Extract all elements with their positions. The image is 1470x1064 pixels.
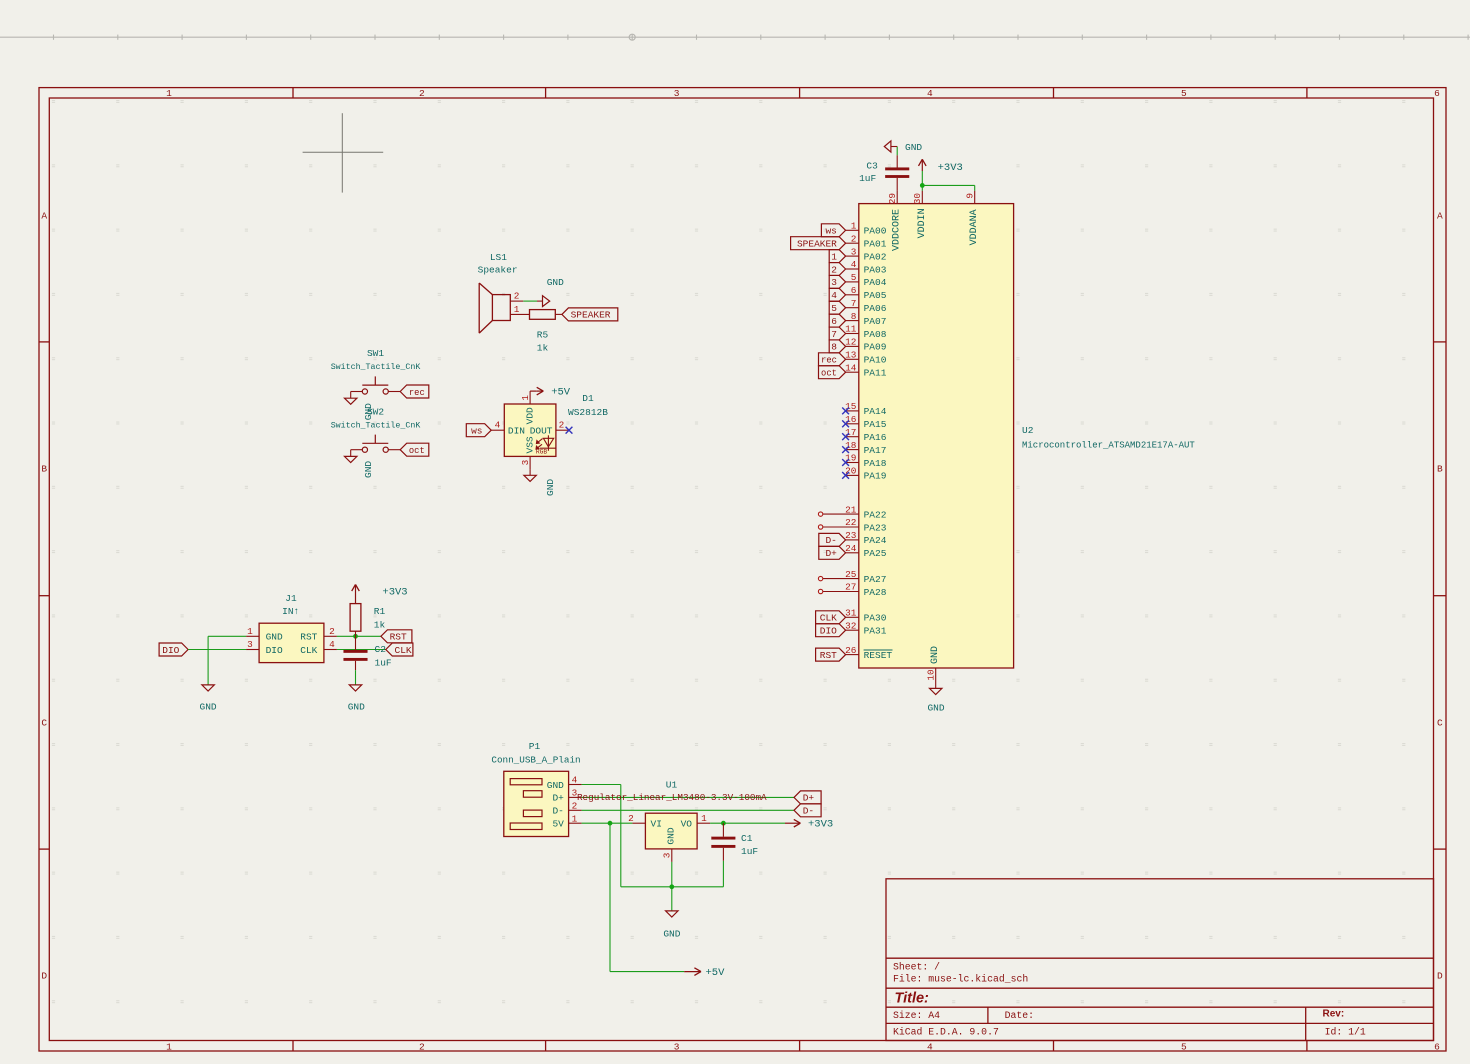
svg-text:PA14: PA14 bbox=[864, 406, 887, 417]
svg-text:Sheet: /: Sheet: / bbox=[893, 961, 940, 972]
wire +3V3 to VDDIN and VDDANA bbox=[922, 171, 974, 191]
svg-text:PA24: PA24 bbox=[864, 535, 887, 546]
svg-text:VO: VO bbox=[681, 819, 693, 830]
svg-text:PA31: PA31 bbox=[864, 626, 887, 637]
wire J1 pin1 to GND bbox=[208, 636, 246, 685]
svg-text:1uF: 1uF bbox=[859, 173, 876, 184]
svg-text:4: 4 bbox=[495, 420, 501, 431]
svg-text:+3V3: +3V3 bbox=[382, 587, 407, 599]
svg-text:D-: D- bbox=[803, 806, 814, 817]
svg-text:PA30: PA30 bbox=[864, 613, 887, 624]
svg-text:PA01: PA01 bbox=[864, 239, 887, 250]
global label SPEAKER bbox=[562, 308, 618, 321]
svg-text:Conn_USB_A_Plain: Conn_USB_A_Plain bbox=[491, 755, 580, 766]
svg-text:D: D bbox=[41, 970, 47, 981]
switch SW1 bbox=[331, 348, 421, 394]
svg-text:GND: GND bbox=[266, 632, 283, 643]
svg-text:GND: GND bbox=[545, 479, 556, 496]
speaker LS1 bbox=[478, 252, 530, 333]
svg-text:4: 4 bbox=[927, 88, 933, 99]
svg-text:Regulator_Linear_LM3480-3.3V-1: Regulator_Linear_LM3480-3.3V-100mA bbox=[577, 792, 767, 803]
wire J1 pin4 to CLK bbox=[337, 649, 386, 651]
svg-text:2: 2 bbox=[419, 1042, 425, 1053]
resistor R1 bbox=[350, 585, 385, 637]
svg-text:VDD: VDD bbox=[524, 407, 535, 424]
switch SW2 bbox=[331, 406, 421, 452]
svg-text:RST: RST bbox=[390, 632, 407, 643]
ground at LS1 pin2 bbox=[537, 277, 564, 307]
svg-text:GND: GND bbox=[547, 277, 564, 288]
svg-text:2: 2 bbox=[831, 264, 837, 275]
svg-text:GND: GND bbox=[547, 780, 564, 791]
global label ws at U2 bbox=[821, 224, 845, 237]
svg-text:DIN: DIN bbox=[508, 425, 525, 436]
svg-text:1uF: 1uF bbox=[741, 846, 758, 857]
svg-text:B: B bbox=[41, 463, 47, 474]
svg-text:10: 10 bbox=[926, 669, 937, 681]
svg-text:D+: D+ bbox=[803, 793, 815, 804]
global label oct at U2 bbox=[819, 366, 846, 379]
junction at RST net bbox=[353, 634, 358, 639]
global label D+ at P1 bbox=[794, 791, 821, 804]
wire P1 D- to label bbox=[582, 809, 794, 811]
svg-text:Switch_Tactile_CnK: Switch_Tactile_CnK bbox=[331, 420, 421, 430]
svg-text:9: 9 bbox=[965, 193, 976, 199]
wire U1 GND to bottom rail bbox=[671, 862, 673, 887]
title block bbox=[886, 879, 1434, 1041]
global label DIO at U2 bbox=[816, 624, 846, 637]
svg-text:PA06: PA06 bbox=[864, 303, 887, 314]
ground at U1 bbox=[663, 911, 680, 939]
svg-text:3: 3 bbox=[831, 277, 837, 288]
svg-text:5V: 5V bbox=[552, 819, 564, 830]
svg-text:3: 3 bbox=[674, 1042, 680, 1053]
svg-text:VSS: VSS bbox=[524, 436, 535, 453]
svg-text:GND: GND bbox=[363, 461, 374, 478]
wire C1 to bottom rail bbox=[722, 861, 724, 887]
svg-text:VI: VI bbox=[651, 819, 662, 830]
svg-text:3: 3 bbox=[674, 88, 680, 99]
wire GND rail to ground bbox=[671, 887, 673, 911]
svg-text:PA09: PA09 bbox=[864, 342, 887, 353]
svg-text:C1: C1 bbox=[741, 833, 753, 844]
svg-text:LS1: LS1 bbox=[490, 252, 507, 263]
svg-text:+3V3: +3V3 bbox=[938, 162, 963, 174]
svg-text:1: 1 bbox=[166, 88, 172, 99]
svg-text:1k: 1k bbox=[537, 343, 549, 354]
svg-text:J1: J1 bbox=[285, 593, 297, 604]
svg-text:2: 2 bbox=[419, 88, 425, 99]
svg-text:oct: oct bbox=[821, 369, 837, 379]
wire P1 D+ to label bbox=[582, 796, 794, 798]
svg-text:Speaker: Speaker bbox=[478, 264, 518, 275]
svg-text:PA10: PA10 bbox=[864, 355, 887, 366]
resistor R5 bbox=[530, 310, 562, 354]
svg-text:PA11: PA11 bbox=[864, 368, 887, 379]
wire P1 GND to bottom rail bbox=[582, 785, 724, 887]
global label ws at D1 bbox=[466, 424, 491, 437]
svg-text:PA23: PA23 bbox=[864, 522, 887, 533]
power +3V3 at U2 VDDIN bbox=[919, 159, 963, 174]
svg-text:Title:: Title: bbox=[895, 991, 930, 1007]
ground at SW2 bbox=[345, 450, 375, 478]
svg-text:ws: ws bbox=[825, 226, 836, 237]
svg-text:Switch_Tactile_CnK: Switch_Tactile_CnK bbox=[331, 362, 421, 372]
global label D- at P1 bbox=[794, 804, 821, 817]
LED driver D1 WS2812B bbox=[491, 391, 608, 469]
svg-text:SPEAKER: SPEAKER bbox=[797, 239, 837, 250]
svg-text:C2: C2 bbox=[375, 644, 387, 655]
svg-text:VDDIN: VDDIN bbox=[917, 208, 928, 238]
global label RST at U2 bbox=[816, 648, 846, 661]
svg-text:5: 5 bbox=[831, 303, 837, 314]
svg-text:2: 2 bbox=[514, 291, 520, 302]
ground at D1 VSS bbox=[524, 469, 556, 496]
no-connect at D1 DOUT bbox=[566, 427, 573, 434]
power +3V3 arrow at U1 output bbox=[785, 819, 833, 831]
svg-text:CLK: CLK bbox=[395, 645, 412, 656]
svg-text:2: 2 bbox=[329, 626, 335, 637]
svg-text:P1: P1 bbox=[529, 741, 541, 752]
svg-text:1: 1 bbox=[166, 1042, 172, 1053]
microcontroller U2 bbox=[823, 191, 1196, 689]
svg-text:GND: GND bbox=[663, 928, 680, 939]
svg-text:A: A bbox=[41, 210, 47, 221]
svg-text:1: 1 bbox=[247, 626, 253, 637]
global label rec bbox=[400, 385, 429, 398]
svg-text:3: 3 bbox=[247, 639, 253, 650]
svg-text:+3V3: +3V3 bbox=[808, 819, 833, 831]
svg-text:rec: rec bbox=[821, 356, 837, 366]
svg-text:R1: R1 bbox=[374, 606, 386, 617]
svg-text:DOUT: DOUT bbox=[530, 425, 553, 436]
power +5V arrow bbox=[684, 967, 725, 979]
svg-text:C: C bbox=[1437, 717, 1443, 728]
svg-text:SPEAKER: SPEAKER bbox=[571, 310, 611, 321]
svg-text:4: 4 bbox=[831, 290, 837, 301]
global label oct bbox=[400, 443, 429, 456]
svg-text:WS2812B: WS2812B bbox=[568, 407, 608, 418]
svg-text:D-: D- bbox=[825, 535, 836, 546]
svg-text:File: muse-lc.kicad_sch: File: muse-lc.kicad_sch bbox=[893, 974, 1028, 985]
global label DIO at J1 bbox=[159, 643, 188, 656]
svg-text:2: 2 bbox=[628, 813, 634, 824]
svg-text:GND: GND bbox=[200, 702, 217, 713]
ground above C3 bbox=[884, 141, 922, 153]
svg-text:RGB: RGB bbox=[536, 448, 548, 455]
svg-text:RESET: RESET bbox=[864, 650, 893, 661]
svg-text:D1: D1 bbox=[582, 393, 594, 404]
svg-text:29: 29 bbox=[887, 193, 898, 204]
svg-text:Size: A4: Size: A4 bbox=[893, 1010, 940, 1021]
svg-text:VDDANA: VDDANA bbox=[969, 209, 980, 245]
capacitor C2 bbox=[344, 636, 392, 670]
svg-text:IN↑: IN↑ bbox=[282, 606, 299, 617]
svg-text:U1: U1 bbox=[666, 780, 678, 791]
svg-text:D+: D+ bbox=[825, 548, 837, 559]
svg-text:oct: oct bbox=[409, 446, 425, 456]
svg-text:PA27: PA27 bbox=[864, 574, 887, 585]
wire DIO to J1 pin3 bbox=[188, 649, 246, 651]
connector P1 USB bbox=[491, 741, 581, 837]
svg-text:PA02: PA02 bbox=[864, 251, 887, 262]
svg-text:1: 1 bbox=[520, 395, 531, 401]
svg-text:6: 6 bbox=[1434, 88, 1440, 99]
power +3V3 at R1 bbox=[352, 585, 408, 599]
svg-text:D: D bbox=[1437, 970, 1443, 981]
svg-text:C: C bbox=[41, 717, 47, 728]
wire C3 to GND bbox=[896, 147, 898, 156]
svg-text:Microcontroller_ATSAMD21E17A-A: Microcontroller_ATSAMD21E17A-AUT bbox=[1022, 440, 1195, 450]
svg-text:DIO: DIO bbox=[266, 645, 283, 656]
svg-text:GND: GND bbox=[666, 827, 677, 844]
wire 5V down to +5V arrow bbox=[610, 823, 684, 971]
no-connects at U2 PA14-PA19 bbox=[842, 408, 849, 479]
global label CLK at J1 bbox=[386, 643, 413, 656]
wire P1 5V to U1 VI bbox=[582, 822, 633, 824]
svg-text:4: 4 bbox=[329, 639, 335, 650]
svg-text:GND: GND bbox=[348, 702, 365, 713]
power +5V at D1 bbox=[530, 387, 571, 399]
svg-text:A: A bbox=[1437, 210, 1443, 221]
junction at 5V net bbox=[608, 821, 613, 826]
svg-text:PA07: PA07 bbox=[864, 316, 887, 327]
svg-text:C3: C3 bbox=[866, 161, 878, 172]
svg-text:1uF: 1uF bbox=[375, 657, 392, 668]
svg-text:1: 1 bbox=[701, 813, 707, 824]
svg-text:3: 3 bbox=[661, 852, 672, 858]
svg-text:PA08: PA08 bbox=[864, 329, 887, 340]
svg-text:GND: GND bbox=[927, 702, 944, 713]
svg-text:VDDCORE: VDDCORE bbox=[892, 209, 903, 251]
wire C2 to GND bbox=[355, 670, 357, 685]
ground at C2 bbox=[348, 685, 365, 713]
global label RST at J1 bbox=[381, 630, 412, 643]
svg-text:B: B bbox=[1437, 463, 1443, 474]
capacitor C3 bbox=[859, 155, 909, 191]
junction at VDDIN bbox=[920, 183, 925, 188]
svg-text:CLK: CLK bbox=[300, 645, 317, 656]
global label D+ at U2 bbox=[819, 546, 846, 559]
svg-text:SW1: SW1 bbox=[367, 348, 384, 359]
wire J1 pin2 to RST bbox=[337, 635, 381, 637]
dangling pin ends at U2 PA22 PA23 PA27 PA28 bbox=[818, 512, 822, 594]
svg-text:1: 1 bbox=[831, 251, 837, 262]
ground at SW1 bbox=[345, 392, 375, 421]
svg-text:PA17: PA17 bbox=[864, 445, 887, 456]
svg-text:Rev:: Rev: bbox=[1323, 1009, 1345, 1020]
svg-text:3: 3 bbox=[520, 459, 531, 465]
svg-text:+5V: +5V bbox=[706, 967, 726, 979]
global label D- at U2 bbox=[819, 533, 846, 546]
svg-text:2: 2 bbox=[559, 420, 565, 431]
svg-text:ws: ws bbox=[471, 426, 482, 437]
svg-text:PA19: PA19 bbox=[864, 471, 887, 482]
svg-text:rec: rec bbox=[409, 388, 425, 398]
svg-text:1k: 1k bbox=[374, 619, 386, 630]
svg-text:PA04: PA04 bbox=[864, 277, 887, 288]
svg-text:30: 30 bbox=[912, 193, 923, 205]
svg-text:4: 4 bbox=[572, 775, 578, 786]
svg-text:KiCad E.D.A. 9.0.7: KiCad E.D.A. 9.0.7 bbox=[893, 1027, 999, 1038]
svg-text:U2: U2 bbox=[1022, 425, 1034, 436]
svg-text:SW2: SW2 bbox=[367, 406, 384, 417]
regulator U1 bbox=[628, 780, 710, 862]
global label rec at U2 bbox=[819, 353, 846, 366]
svg-text:RST: RST bbox=[820, 650, 837, 661]
svg-text:7: 7 bbox=[831, 329, 837, 340]
svg-text:PA16: PA16 bbox=[864, 432, 887, 443]
connector J1 bbox=[246, 593, 337, 663]
global label SPEAKER at U2 bbox=[791, 237, 846, 250]
svg-text:GND: GND bbox=[930, 646, 941, 664]
capacitor C1 bbox=[711, 823, 758, 861]
svg-text:PA22: PA22 bbox=[864, 509, 887, 520]
svg-text:PA05: PA05 bbox=[864, 290, 887, 301]
svg-text:+5V: +5V bbox=[551, 387, 571, 399]
junction at GND rail bbox=[669, 884, 674, 889]
svg-text:4: 4 bbox=[927, 1042, 933, 1053]
svg-text:GND: GND bbox=[905, 142, 922, 153]
svg-text:RST: RST bbox=[300, 632, 317, 643]
svg-text:Id: 1/1: Id: 1/1 bbox=[1325, 1027, 1366, 1038]
ground at U2 pin10 bbox=[927, 688, 944, 713]
svg-text:CLK: CLK bbox=[820, 613, 837, 624]
svg-text:6: 6 bbox=[1434, 1042, 1440, 1053]
svg-text:6: 6 bbox=[831, 316, 837, 327]
global labels 1-8 at U2 bbox=[829, 250, 845, 353]
svg-text:PA15: PA15 bbox=[864, 419, 887, 430]
wire U1 VO to +3V3 bbox=[710, 822, 785, 824]
svg-text:PA03: PA03 bbox=[864, 264, 887, 275]
svg-text:D-: D- bbox=[552, 806, 563, 817]
svg-text:Date:: Date: bbox=[1005, 1010, 1034, 1021]
global label CLK at U2 bbox=[816, 611, 846, 624]
svg-text:5: 5 bbox=[1181, 88, 1187, 99]
wire LS1 pin2 to GND bbox=[523, 300, 537, 302]
svg-text:D+: D+ bbox=[552, 793, 564, 804]
svg-text:5: 5 bbox=[1181, 1042, 1187, 1053]
svg-text:DIO: DIO bbox=[162, 645, 179, 656]
svg-text:DIO: DIO bbox=[820, 626, 837, 637]
svg-text:PA18: PA18 bbox=[864, 458, 887, 469]
svg-text:PA25: PA25 bbox=[864, 548, 887, 559]
svg-text:1: 1 bbox=[572, 813, 578, 824]
svg-text:8: 8 bbox=[831, 342, 837, 353]
svg-text:PA00: PA00 bbox=[864, 226, 887, 237]
svg-text:R5: R5 bbox=[537, 330, 549, 341]
ground at J1 pin1 bbox=[200, 685, 217, 713]
junction at 3V3 net bbox=[721, 821, 726, 826]
svg-text:PA28: PA28 bbox=[864, 587, 887, 598]
svg-text:1: 1 bbox=[514, 304, 520, 315]
